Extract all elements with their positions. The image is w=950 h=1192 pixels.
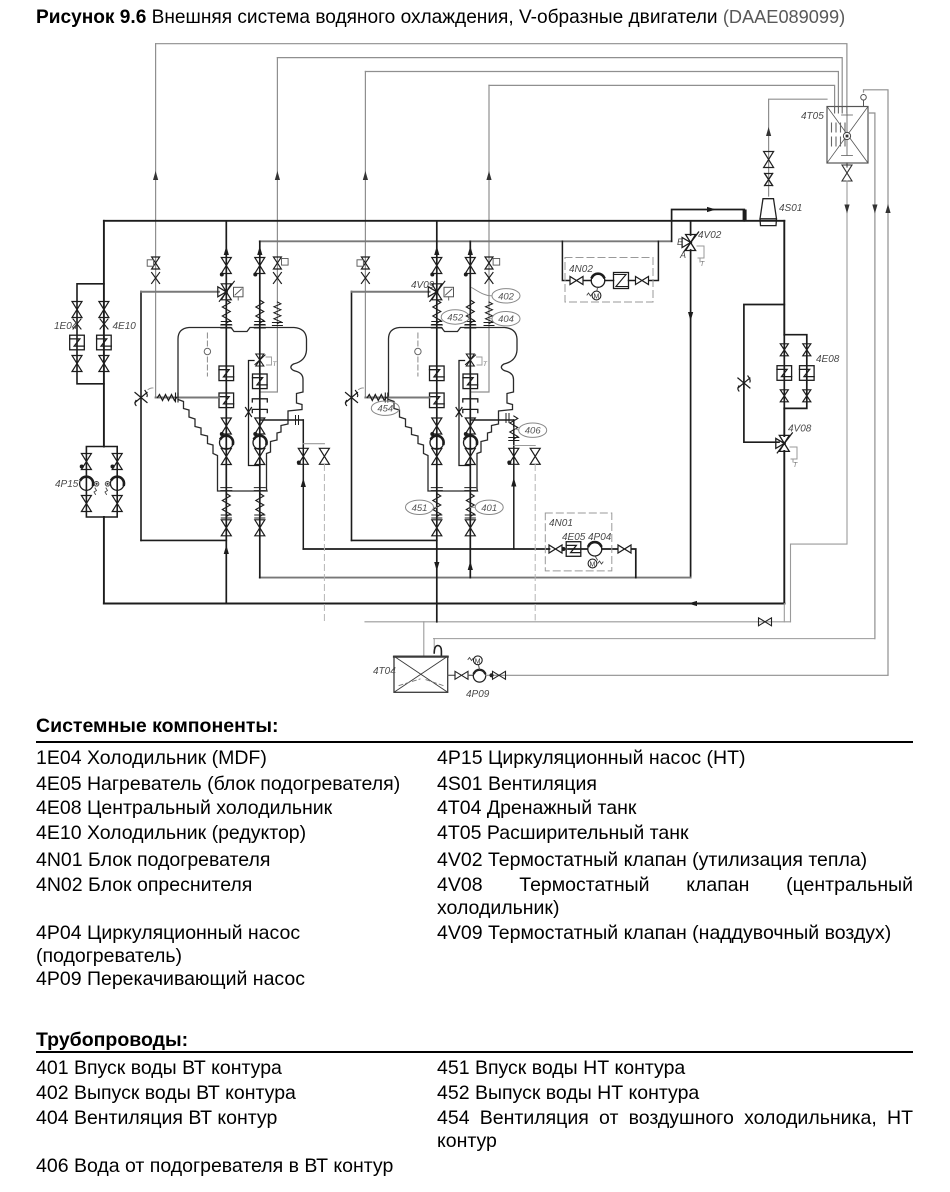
pump engine1 HT — [253, 436, 267, 450]
pump engine1 LT — [220, 436, 234, 450]
port flex ticks — [296, 416, 299, 425]
HT cooler lower brackets — [252, 399, 267, 413]
wire pump fill line (right outer) — [864, 90, 889, 675]
wire tank feed drop — [423, 622, 425, 656]
wire engine1 preheater riser — [302, 420, 304, 549]
svg-text:4S01: 4S01 — [779, 203, 802, 214]
dashed gauge line engine1 — [206, 333, 208, 376]
svg-text:T: T — [273, 361, 278, 368]
valve 4E10 bottom — [99, 356, 109, 372]
svg-text:4N01: 4N01 — [549, 518, 573, 529]
flexible hose LT feed 2 — [367, 395, 386, 401]
flex ticks main riser2 — [431, 325, 442, 328]
thermostat actuator box — [234, 287, 244, 297]
wire 4N02 feed drop — [562, 241, 658, 280]
arrow up on fill line — [885, 204, 890, 213]
title — [36, 7, 845, 29]
dashed gauge line engine2 — [417, 333, 419, 376]
wire main bottom header — [104, 603, 784, 605]
wire main left edge — [103, 221, 105, 604]
charge air cooler HT stage 2 — [430, 366, 445, 381]
tag 406 — [514, 423, 547, 437]
valve under pump2 — [432, 449, 442, 465]
motor 4P04 — [588, 559, 597, 568]
valve branch spare 2 — [530, 448, 540, 464]
tank 4T05 internal level pipes (dashed) — [832, 107, 847, 147]
arrow left on bottom header — [688, 601, 697, 606]
valve under HT pump — [255, 449, 265, 465]
thermostat actuator box 4V09 — [444, 287, 454, 297]
valve 4N02 outlet — [636, 277, 649, 285]
motor 4N02 pump — [592, 291, 601, 300]
valve pair on vent riser 3 — [357, 257, 369, 284]
tank 4T04 body — [394, 656, 448, 692]
wall ticks 2 — [385, 393, 388, 402]
section: piping — [36, 1029, 188, 1052]
wire engine2 preheater port — [470, 419, 514, 421]
pump 4P15 no1 — [80, 477, 94, 491]
flex ticks second riser — [254, 325, 265, 328]
svg-text:4E05: 4E05 — [562, 532, 586, 543]
bellows main riser2 — [432, 300, 442, 325]
wire 4E08 bypass — [744, 305, 784, 443]
arrow up main riser2 — [434, 246, 439, 255]
pump engine2 LT — [430, 436, 444, 450]
wire preheater header B — [303, 549, 636, 578]
arrow up second riser2 — [468, 246, 473, 255]
arrow down to drain — [434, 562, 439, 571]
wire vent-to-funnel line — [769, 99, 827, 196]
svg-text:454: 454 — [377, 404, 393, 415]
pump engine2 HT — [464, 436, 478, 450]
4V08 actuator bracket — [790, 447, 797, 462]
charge air cooler LT stage 2 — [430, 393, 445, 408]
arrow up on vent riser 2 — [275, 171, 280, 180]
tag 451 — [406, 500, 437, 514]
svg-text:4P04: 4P04 — [588, 532, 612, 543]
valve under pump — [221, 449, 231, 465]
bellows second riser — [255, 300, 265, 325]
cooler 4E08 element 1 — [777, 366, 792, 381]
bellows below second riser2 — [465, 488, 476, 491]
port flex ticks 2 — [506, 414, 509, 423]
arrow up on funnel line — [766, 127, 771, 136]
valve main riser2 lower — [432, 418, 442, 434]
svg-text:451: 451 — [412, 503, 428, 514]
svg-text:452: 452 — [447, 313, 464, 324]
tag 454 — [371, 401, 399, 415]
wire pump suction — [448, 674, 455, 676]
svg-text:B: B — [677, 237, 683, 247]
junction dot — [253, 273, 257, 277]
junction dot — [464, 432, 468, 436]
4N01 dashed enclosure — [545, 513, 612, 571]
wire tank drain line — [791, 181, 848, 622]
wire branch connector 2 — [514, 445, 535, 447]
section: system components — [36, 715, 279, 738]
wire pump branch split — [86, 447, 117, 518]
engine2 thermostat bypass loop — [459, 361, 470, 466]
wire tank overflow line (right) — [868, 113, 875, 639]
valve pair on vent riser 1 — [147, 257, 159, 284]
mini thermostat bracket — [266, 357, 272, 365]
svg-text:M: M — [475, 658, 481, 665]
wire vent riser x=489 — [471, 85, 489, 392]
wire main top header — [104, 220, 784, 222]
valve 4E08 branch2 top — [803, 344, 811, 356]
gauge circle 2 — [415, 348, 421, 354]
junction dot — [220, 432, 224, 436]
evaporator heat exchanger — [614, 273, 629, 289]
tank 4T05 vent nozzle — [863, 100, 865, 107]
butterfly valve on bypass — [738, 376, 750, 391]
wire vent riser x=277.4 — [261, 58, 278, 392]
svg-text:4V02: 4V02 — [698, 230, 722, 241]
bellows below engine2 — [431, 488, 442, 491]
valve 4E08 branch1 top — [780, 344, 788, 356]
wire spare drop 2 (dashed) — [534, 465, 536, 621]
valve 4N02 inlet — [570, 277, 583, 285]
closed valve on funnel line — [765, 174, 773, 186]
valve pump2 outlet — [112, 496, 122, 512]
valve engine1 charge-air thermostat (3-way) — [218, 281, 235, 301]
junction dot — [430, 273, 434, 277]
engine1 main riser — [225, 221, 227, 604]
tag 402 — [472, 288, 521, 303]
svg-text:401: 401 — [481, 503, 497, 514]
svg-text:T: T — [700, 261, 705, 268]
junction dot — [464, 273, 468, 277]
engine2 main riser — [436, 221, 438, 622]
cooler 1E04 — [70, 335, 85, 350]
engine1 thermostat bypass loop — [249, 361, 260, 466]
gauge circle — [204, 348, 210, 354]
tag 401 — [470, 500, 503, 514]
valve main riser top — [221, 258, 231, 274]
bellows on vent riser 4 — [484, 302, 494, 326]
overflow hook into tank — [433, 639, 435, 648]
arrow down on tank drain — [844, 205, 849, 214]
svg-text:4T04: 4T04 — [373, 666, 396, 677]
wire vent riser x=365.4 — [364, 72, 366, 398]
valve second riser2 bottom — [465, 520, 475, 536]
wire cooler branch split — [77, 284, 104, 384]
valve 4N01 inlet — [549, 545, 562, 553]
bellows preheater riser — [509, 416, 519, 441]
junction dot — [507, 461, 511, 465]
wire main right edge (4E08 feed) — [783, 221, 785, 604]
svg-text:4V09: 4V09 — [411, 280, 435, 291]
svg-text:T: T — [483, 361, 488, 368]
wire vent line engine2 HT (top run) — [489, 85, 835, 107]
junction dot pump1 — [80, 465, 84, 469]
pump 4P09 — [473, 670, 485, 682]
arrow up main riser — [224, 246, 229, 255]
valve discharge — [493, 671, 506, 679]
wire vent line engine2 LT (top run) — [365, 72, 838, 108]
valve pair on vent riser 2 (lockable) — [273, 257, 288, 284]
valve suction — [455, 671, 468, 679]
svg-text:404: 404 — [498, 314, 514, 325]
svg-text:4E10: 4E10 — [113, 321, 137, 332]
flexible hose LT feed — [158, 395, 177, 401]
wire vent line engine1 HT (top run) — [277, 58, 842, 107]
wire engine2 charge-air LT line — [352, 291, 430, 293]
junction dot — [562, 547, 566, 551]
expansion bellows main riser — [221, 300, 231, 325]
tag 404 — [490, 312, 520, 326]
svg-text:M: M — [590, 562, 596, 569]
flex ticks second riser2 — [465, 325, 476, 328]
engine2 enclosure bottom edge — [352, 539, 437, 541]
valve branch spare — [319, 448, 329, 464]
arrow up on vent riser 4 — [486, 171, 491, 180]
svg-text:4P15: 4P15 — [55, 479, 79, 490]
wire vent line engine1 LT (top run) — [156, 44, 847, 107]
arrow down on overflow line — [872, 205, 877, 214]
junction dot — [297, 461, 301, 465]
wire engine1 preheater port — [260, 419, 304, 421]
valve 4E10 top — [99, 302, 109, 318]
wire drain stub from main loop — [783, 604, 785, 622]
valve second riser top — [255, 258, 265, 274]
charge air cooler HT stage — [219, 366, 234, 381]
pump 4N02 — [591, 274, 605, 288]
cooler 4E08 element 2 — [800, 366, 815, 381]
tank 4T05 float — [843, 132, 850, 139]
wire engine2 LT feed — [365, 397, 429, 399]
schematic SVG — [0, 0, 950, 710]
engine2 enclosure left edge — [351, 292, 353, 541]
HT thermostat mini valve — [255, 354, 265, 366]
wire HT vent header — [260, 240, 672, 242]
engine2 second riser (HT) — [469, 241, 471, 577]
valve on funnel line — [764, 152, 774, 168]
valve main riser lower — [221, 418, 231, 434]
valve main riser2 bottom — [432, 520, 442, 536]
valve under tank 4T05 — [846, 163, 848, 167]
valve second riser2 lower — [465, 418, 475, 434]
arrow up second riser — [257, 246, 262, 255]
valve 1E04 bottom — [72, 356, 82, 372]
engine1 enclosure bottom edge — [141, 539, 226, 541]
motor marks between pumps — [94, 482, 110, 495]
valve preheater riser 2 — [509, 448, 519, 464]
engine1 second riser (HT) — [259, 241, 261, 577]
arrow up on vent riser 1 — [153, 171, 158, 180]
junction dot pump2 — [111, 465, 115, 469]
wire vent riser x=155.6 — [155, 44, 157, 398]
pump 4P04 — [588, 542, 602, 556]
wire engine1 LT feed — [156, 397, 219, 399]
mini thermostat bracket 2 — [477, 357, 483, 365]
valve 4V08 (3-way thermostat) — [776, 433, 793, 453]
funnel 4S01 — [760, 199, 777, 226]
motor 4P09 — [473, 656, 482, 665]
svg-text:4N02: 4N02 — [569, 264, 593, 275]
wire 4V02 stub — [690, 221, 692, 578]
throttle valve on enclosure leg — [135, 391, 147, 406]
valve second riser bottom — [255, 520, 265, 536]
valve main riser2 top — [432, 258, 442, 274]
throttle valve on enclosure leg 2 — [346, 391, 358, 406]
closed tick 1E04 — [73, 319, 81, 329]
valve on drain header — [759, 618, 772, 626]
engine1 enclosure left edge — [140, 292, 142, 541]
wire spare drop (dashed) — [323, 465, 325, 625]
tank 4T05 body — [827, 107, 868, 164]
bypass junction block — [743, 210, 747, 222]
tank 4T04 dashed level — [399, 679, 443, 686]
HT cooler element 2 — [463, 374, 478, 389]
svg-text:406: 406 — [525, 426, 542, 437]
bellows below second riser — [254, 488, 265, 491]
wire engine1 charge-air LT line — [141, 291, 219, 293]
arrow right on bypass — [707, 207, 716, 212]
wire 4E08 branch headers — [784, 335, 807, 409]
tag 452 — [441, 310, 469, 324]
valve pump2 inlet — [112, 454, 122, 470]
svg-text:T: T — [793, 462, 798, 469]
charge air cooler LT stage — [219, 393, 234, 408]
junction dot — [489, 673, 493, 677]
wire to pump — [468, 674, 473, 676]
HT cooler element — [252, 374, 267, 389]
junction dot — [220, 273, 224, 277]
engine2 outline — [389, 328, 518, 492]
HT thermostat mini valve 2 — [466, 354, 476, 366]
bellows below engine1 — [221, 488, 232, 491]
svg-text:4T05: 4T05 — [801, 111, 824, 122]
valve pump1 outlet — [81, 496, 91, 512]
svg-text:4E08: 4E08 — [816, 354, 840, 365]
valve under HT pump2 — [465, 449, 475, 465]
arrow up to header B2 — [468, 561, 473, 570]
valve 4V02 (3-way) — [682, 232, 699, 252]
bellows on vent riser 2 — [272, 302, 282, 326]
valve pump1 inlet — [81, 454, 91, 470]
wire overflow header — [434, 638, 875, 640]
4N02 dashed enclosure — [565, 258, 653, 303]
4V02 actuator bracket — [697, 246, 704, 262]
wire pump discharge — [486, 674, 888, 676]
svg-text:4V08: 4V08 — [788, 424, 812, 435]
junction dot — [253, 432, 257, 436]
arrow up above bottom header — [224, 545, 229, 554]
valve 4E08 branch1 bottom — [780, 390, 788, 402]
wire HT return line C — [260, 577, 691, 579]
closed tick 4E10 — [100, 319, 108, 329]
valve main riser bottom — [221, 520, 231, 536]
HT cooler lower brackets 2 — [463, 399, 478, 413]
bellows second riser2 — [465, 300, 475, 325]
engine1 outline — [178, 328, 307, 492]
valve 4V09 charge-air thermostat (3-way) — [428, 281, 445, 301]
wire branch connector — [303, 443, 324, 445]
svg-text:A: A — [679, 250, 686, 260]
pump 4P15 no2 — [110, 477, 124, 491]
arrow up preheater riser — [301, 478, 306, 487]
closed valve on bypass 2 — [456, 408, 462, 417]
valve pair on vent riser 4 (lockable) — [485, 257, 500, 284]
valve second riser lower — [255, 418, 265, 434]
flex joint ticks main riser — [221, 325, 232, 328]
wire drain header — [365, 621, 791, 623]
heat recovery bypass loop — [672, 210, 745, 221]
valve second riser2 top — [465, 258, 475, 274]
valve 4N01 outlet — [618, 545, 631, 553]
svg-text:M: M — [594, 294, 600, 301]
wall ticks — [176, 393, 179, 402]
svg-text:402: 402 — [498, 291, 515, 302]
svg-text:1E04: 1E04 — [54, 321, 78, 332]
arrow down on 4V02 drop — [688, 312, 693, 321]
rule under header — [36, 741, 913, 743]
arrow up preheater riser 2 — [511, 478, 516, 487]
wire engine2 preheater riser — [513, 420, 515, 549]
arrow up on vent riser 3 — [363, 171, 368, 180]
cooler 4E10 — [97, 335, 112, 350]
closed valve on bypass — [246, 408, 252, 417]
valve preheater riser — [298, 448, 308, 464]
svg-text:4P09: 4P09 — [466, 689, 490, 700]
valve 1E04 top — [72, 302, 82, 318]
junction dot — [430, 432, 434, 436]
valve 4E08 branch2 bottom — [803, 390, 811, 402]
heater 4E05 — [566, 542, 581, 557]
